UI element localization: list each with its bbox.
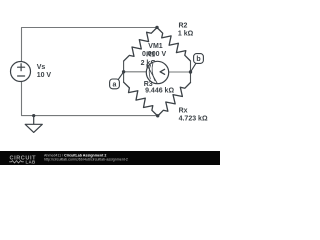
- svg-text:http://circuitlab.com/c/6br4u6: http://circuitlab.com/c/6br4u6/circuitla…: [44, 158, 128, 162]
- junction left node a: [122, 70, 125, 73]
- logo CIRCUIT LAB: [10, 156, 37, 165]
- svg-text:b: b: [196, 56, 200, 63]
- watermark bar: [0, 151, 220, 165]
- wire stub below node b to Rx: [190, 72, 192, 83]
- svg-text:9.446 kΩ: 9.446 kΩ: [145, 88, 174, 95]
- svg-text:4.723 kΩ: 4.723 kΩ: [179, 115, 208, 122]
- svg-text:Rx: Rx: [179, 108, 188, 115]
- resistor R3 (bottom-left arm): [124, 82, 158, 116]
- wire stub below R1: [123, 61, 125, 72]
- wire stub above R3: [123, 72, 125, 82]
- resistor Rx (bottom-right arm): [158, 83, 191, 117]
- label R2 1 kOhm: [178, 23, 194, 38]
- watermark text: [44, 153, 128, 161]
- resistor R1 (top-left arm): [124, 28, 157, 62]
- label Vs 10 V: [37, 64, 52, 79]
- svg-text:1 kΩ: 1 kΩ: [178, 31, 194, 38]
- svg-text:a: a: [113, 81, 117, 88]
- junction right node b: [189, 70, 192, 73]
- svg-text:0.000 V: 0.000 V: [142, 51, 166, 58]
- svg-text:Vs: Vs: [37, 64, 46, 71]
- wire voltmeter to node b: [169, 71, 191, 73]
- node a flag: [110, 72, 124, 89]
- svg-text:VM1: VM1: [148, 43, 163, 50]
- node b flag: [191, 54, 204, 72]
- wire node a to voltmeter: [124, 71, 147, 73]
- wire top from Vs to bridge top: [22, 28, 158, 62]
- label R1 2 kOhm (partly hidden): [141, 51, 157, 67]
- wire stub below R2: [190, 61, 192, 72]
- label Rx 4.723 kOhm: [179, 108, 208, 123]
- label VM1 0.000 V: [142, 43, 166, 58]
- junction ground tap: [32, 114, 35, 117]
- svg-text:R2: R2: [179, 23, 188, 30]
- voltage source Vs: [11, 62, 31, 82]
- ground: [25, 116, 42, 133]
- voltmeter VM1: [146, 61, 168, 83]
- label R3 9.446 kOhm: [144, 81, 175, 95]
- svg-text:10 V: 10 V: [37, 72, 52, 79]
- junction top node: [155, 26, 158, 29]
- wire bottom from Vs to bridge bottom: [22, 82, 158, 116]
- svg-text:LAB: LAB: [26, 159, 36, 164]
- resistor R2 (top-right arm): [157, 28, 191, 62]
- junction bottom node: [156, 114, 159, 117]
